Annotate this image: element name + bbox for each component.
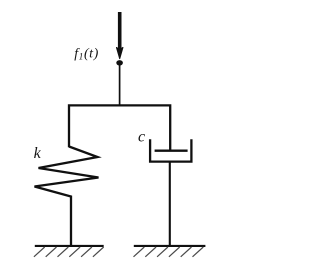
- force arrow head: [117, 48, 123, 59]
- node dot at force application: [116, 60, 123, 65]
- force arrow F shaft: [118, 12, 122, 52]
- top bar with left and right drops: [69, 105, 170, 150]
- left ground hatching: [34, 247, 104, 257]
- left ground line: [35, 245, 104, 247]
- svg-text:c: c: [138, 129, 145, 146]
- svg-text:f1(t): f1(t): [74, 47, 99, 63]
- damper piston plate: [155, 150, 188, 152]
- wire damper to right ground: [169, 162, 171, 246]
- spring k zigzag: [35, 147, 99, 247]
- wire from node dot down to bar: [119, 64, 121, 106]
- right ground line: [134, 245, 206, 247]
- right ground hatching: [134, 247, 204, 257]
- svg-text:k: k: [34, 145, 42, 162]
- damper cylinder cup: [150, 139, 191, 161]
